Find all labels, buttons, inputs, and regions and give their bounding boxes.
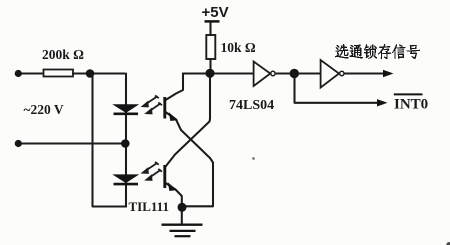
wire: Q2 collector diagonal up to rail junction [165,74,210,168]
junction dot ground node [178,203,187,212]
wire: resistor R1 to junction and corner down to D1 [73,72,125,74]
wire: Q1 emitter diagonal to right vertical and bottom node [165,112,213,207]
arrowhead INT0 output [377,99,388,106]
svg-text:INT0: INT0 [394,97,428,113]
resistor R1 200k body [44,70,74,77]
terminal dot B [15,140,22,147]
LED D2 [114,175,139,184]
wire: AC input bottom lead to LED midpoint [18,142,125,144]
svg-text:TIL111: TIL111 [129,199,169,214]
wire: top rail to inverter U1A input [183,72,253,74]
wire: node down and across for INT0 branch [295,74,379,103]
INT0 overline [394,93,423,95]
junction dot pull-up rail [205,69,214,78]
svg-text:74LS04: 74LS04 [229,98,274,113]
svg-text:~220 V: ~220 V [24,102,64,117]
wire: LED branch vertical [125,74,127,207]
svg-text:10k Ω: 10k Ω [221,40,256,55]
junction dot after R1 [86,69,95,78]
phototransistor Q1 base bar [163,97,166,119]
wire: U1B output arrow line [345,72,384,74]
wire: left bypass from junction down and across to LED bottom [93,74,127,207]
wire: +5V supply lead through resistor R2 [209,23,211,74]
inverter U1A [254,62,271,87]
optocoupler light arrows lower [142,162,162,180]
inverter U1B [321,60,339,88]
optocoupler light arrows upper [142,96,162,114]
terminal dot A [15,70,22,77]
LED D1 [114,105,139,114]
wire: ground stem [181,207,183,224]
svg-text:200k Ω: 200k Ω [42,47,84,62]
junction dot U1A output node [290,69,299,78]
label strobe latch signal (CJK) [335,44,420,59]
scan speck [252,157,255,160]
inverter U1B bubble [340,71,344,75]
scan blot bottom-right corner [446,242,450,245]
wire: phototransistor Q1 collector to rail [165,74,183,101]
power +5V bar [205,20,220,23]
resistor R2 10k body [206,35,215,59]
ground symbol [162,225,203,237]
junction dot LED midpoint [121,139,130,148]
wire: Q2 emitter down to ground node [165,183,182,208]
phototransistor Q2 emitter arrowhead [169,184,176,191]
wire: AC input top lead [18,72,43,74]
phototransistor Q2 base bar [163,165,166,188]
inverter U1A bubble [271,71,275,75]
svg-text:+5V: +5V [202,4,229,21]
wire: U1A output to node [276,72,320,74]
phototransistor Q1 emitter arrowhead [170,114,177,121]
arrowhead strobe output [383,70,394,77]
